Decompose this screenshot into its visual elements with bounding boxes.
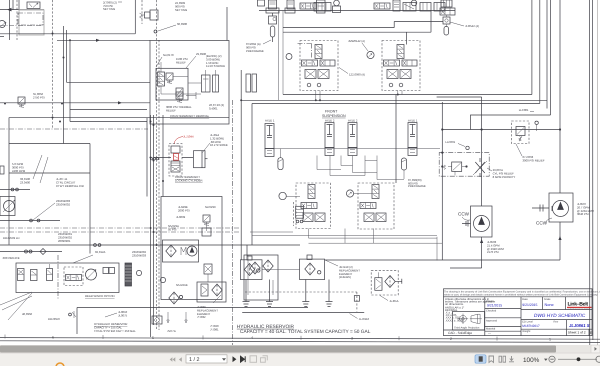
label jl0507 bbox=[577, 202, 595, 216]
cwt valve section 2 red bbox=[174, 154, 179, 161]
long vertical feed 4 bbox=[550, 0, 552, 115]
axle1 acc stub bbox=[280, 149, 282, 158]
bus junction dots bbox=[150, 121, 158, 247]
pu motor m bbox=[181, 247, 186, 255]
svg-text:ED Level: ED Level bbox=[522, 321, 533, 324]
gray highlight box bbox=[19, 10, 44, 35]
form column divider bbox=[520, 297, 522, 336]
top valve group 1b bbox=[314, 3, 331, 12]
svg-text:JIJ0542 (4): JIJ0542 (4) bbox=[465, 24, 479, 28]
priority circle bbox=[466, 146, 469, 149]
svg-text:1 / 2: 1 / 2 bbox=[189, 357, 200, 363]
svg-text:5: 5 bbox=[152, 336, 154, 340]
regulator spring bbox=[140, 13, 145, 19]
svg-text:6: 6 bbox=[52, 335, 54, 339]
svg-text:—: — bbox=[488, 331, 491, 335]
cwt locking cylinder bbox=[194, 151, 206, 168]
filter circle top bbox=[160, 277, 165, 282]
left pump circle bbox=[0, 21, 6, 28]
top-left main wire bbox=[0, 9, 44, 11]
collector drop x437 bbox=[436, 237, 438, 261]
svg-text:23,0400: 23,0400 bbox=[20, 180, 31, 184]
return valve marks bbox=[376, 272, 381, 289]
fb valve marks bbox=[202, 286, 207, 294]
top valve group 3b bbox=[434, 3, 445, 12]
strainer tees bbox=[243, 302, 333, 307]
winch valve 3 bbox=[47, 269, 53, 281]
junction dots on buses bbox=[4, 103, 63, 123]
fs2 spool left bbox=[384, 60, 400, 66]
checked row line bbox=[485, 317, 521, 319]
label 900 psi setting bbox=[175, 1, 187, 12]
label replacement element bbox=[197, 305, 218, 319]
filter box A bbox=[240, 260, 262, 280]
cwt valve hatch bbox=[171, 163, 180, 171]
front susp dashed box 1 bbox=[300, 41, 338, 91]
projection symbol crosshair bbox=[458, 314, 468, 324]
cb cylinder 1 bbox=[202, 75, 211, 92]
vertical dashed bus pair bbox=[157, 0, 160, 330]
top-left valve arrow bbox=[29, 3, 38, 8]
svg-text:SETTING: SETTING bbox=[175, 8, 187, 12]
wire mid stub bbox=[0, 25, 42, 27]
junction dots y100 bbox=[240, 94, 399, 102]
svg-text:2400 RPM: 2400 RPM bbox=[12, 169, 26, 173]
svg-text:10.2 STROKE: 10.2 STROKE bbox=[210, 143, 228, 147]
label 231064001 bbox=[58, 232, 72, 243]
wire arrowhead bbox=[7, 8, 12, 12]
filter assembly box right bbox=[244, 255, 278, 300]
feed 4 horizontal run bbox=[471, 115, 551, 130]
leader diagonal bbox=[33, 203, 55, 220]
rear gauge bbox=[346, 190, 353, 197]
winch gauge bbox=[136, 270, 141, 275]
pump2 feed vertical bbox=[559, 131, 561, 193]
cwt valve section 2 marks red bbox=[174, 156, 179, 161]
pump housing bbox=[0, 197, 15, 216]
top accumulator bank cylinders bbox=[258, 0, 265, 6]
junction dots priority bbox=[441, 152, 467, 168]
fs1 vertical valve bbox=[315, 45, 322, 59]
page box dropdown arrow bbox=[222, 358, 226, 361]
orifice diamond bbox=[40, 249, 46, 255]
svg-text:0,4001: 0,4001 bbox=[209, 106, 218, 110]
fs2 spool right marks bbox=[403, 60, 412, 66]
lower check valve bbox=[152, 316, 162, 324]
vertical feed line b bbox=[66, 30, 68, 82]
title row divider bbox=[521, 319, 592, 321]
section divider dash-dot bbox=[232, 100, 234, 345]
check comp circle bbox=[445, 19, 448, 22]
pu inner box bbox=[163, 240, 199, 262]
orange notification arc bbox=[56, 363, 64, 366]
svg-text:JLJ1044: JLJ1044 bbox=[183, 135, 194, 139]
filter B diamond bbox=[305, 263, 315, 275]
label 5.0 gpm bbox=[12, 162, 26, 173]
svg-text:None: None bbox=[545, 303, 554, 307]
leader 122 bbox=[339, 68, 348, 74]
top valve group 2b bbox=[403, 3, 416, 12]
feeder dot bbox=[162, 180, 164, 182]
pump1 feed vertical bbox=[481, 97, 483, 206]
window right edge bbox=[596, 0, 599, 345]
bus junction dots bbox=[441, 128, 561, 130]
priority dash-dot box bbox=[439, 153, 489, 177]
cluster drop wire bbox=[446, 15, 448, 27]
pressure bus y129 bbox=[442, 129, 560, 131]
wire y121 bbox=[70, 121, 147, 123]
label block bore bbox=[206, 54, 225, 68]
collector wire y243 bbox=[309, 242, 443, 244]
winch valve 1 bbox=[18, 269, 25, 281]
label ctrl circuit bbox=[56, 177, 84, 188]
fs1 bottom marks bbox=[306, 71, 328, 78]
winch valve 2 bbox=[31, 270, 38, 281]
llc001 stub bbox=[530, 112, 537, 132]
label thermal relief bbox=[166, 105, 192, 112]
leader precharge bbox=[263, 40, 271, 44]
first-page button bbox=[170, 357, 176, 362]
title block inner horizontal top bbox=[444, 296, 593, 298]
axle1 accumulator bbox=[278, 158, 283, 170]
rs1 bottom marks bbox=[304, 214, 324, 221]
wire y82 bbox=[67, 81, 151, 83]
svg-text:J*J032: J*J032 bbox=[197, 315, 206, 319]
svg-text:J*J081: J*J081 bbox=[210, 327, 219, 331]
svg-text:231064002: 231064002 bbox=[56, 202, 70, 206]
svg-text:3040 PSI: 3040 PSI bbox=[577, 212, 589, 216]
cb inner box bbox=[156, 68, 188, 100]
red leader curve bbox=[174, 137, 183, 145]
fs1 drop wires bbox=[316, 91, 320, 101]
pump2 shaft bbox=[532, 205, 552, 212]
precharge bottle bbox=[270, 26, 275, 37]
filter box B bbox=[300, 259, 325, 279]
winch dash vertical bbox=[57, 255, 59, 300]
pu pump circle bbox=[187, 246, 197, 256]
small gauge left bbox=[286, 54, 292, 60]
collector wire y237 bbox=[252, 234, 437, 236]
cb cylinder 2 bbox=[213, 75, 219, 92]
svg-text:4: 4 bbox=[251, 336, 253, 340]
fa filter big bbox=[250, 262, 260, 274]
manifold fittings bbox=[266, 8, 279, 13]
top right bottle bbox=[444, 27, 449, 36]
ED level row divider bbox=[521, 328, 592, 330]
fb filter bbox=[212, 284, 222, 296]
download icon bbox=[509, 356, 514, 362]
ED level cell divider bbox=[566, 320, 568, 330]
svg-text:231064003: 231064003 bbox=[132, 253, 146, 257]
svg-text:M187N2017: M187N2017 bbox=[522, 324, 540, 328]
leader n4 bbox=[156, 57, 162, 67]
label jl044 bore bbox=[210, 133, 228, 147]
mid fittings y245 bbox=[94, 244, 97, 247]
fs1 check circles bbox=[307, 83, 311, 87]
filter A diamond bbox=[244, 264, 254, 276]
svg-text:2750 PSI: 2750 PSI bbox=[33, 95, 45, 99]
axle accumulator bbox=[401, 158, 406, 170]
svg-text:JL0699: JL0699 bbox=[176, 215, 186, 219]
svg-text:JL0075: JL0075 bbox=[118, 313, 128, 317]
left vertical x442 bbox=[441, 102, 443, 260]
pump1 outlet bbox=[481, 237, 483, 268]
orifice circle bbox=[154, 30, 157, 33]
manifold mesh wires bbox=[317, 156, 404, 180]
svg-text:JLJ0861 S: JLJ0861 S bbox=[569, 323, 590, 328]
svg-text:Sheet 1 of 2: Sheet 1 of 2 bbox=[568, 331, 586, 335]
leader gauge bbox=[362, 43, 368, 51]
cb relief lower marks bbox=[177, 89, 182, 99]
pu drain valve bbox=[204, 264, 212, 274]
filter B top square bbox=[307, 255, 312, 260]
leader 29007a bbox=[487, 168, 492, 171]
top-left valve bbox=[27, 2, 40, 9]
rs2 bottom cluster bbox=[364, 213, 374, 222]
mid component dashed edge bbox=[293, 202, 295, 226]
svg-text:COUNTERWEIGHT REMOVAL: COUNTERWEIGHT REMOVAL bbox=[170, 114, 210, 118]
tall comp stripes bbox=[394, 2, 399, 7]
top right valve marks bbox=[441, 8, 450, 15]
svg-text:122,0990 (4): 122,0990 (4) bbox=[349, 73, 365, 77]
svg-text:CAD - SolidEdge: CAD - SolidEdge bbox=[448, 331, 472, 335]
svg-text:Scale: Scale bbox=[544, 298, 551, 301]
axle cylinder 3 bbox=[408, 123, 417, 156]
pump2 box bbox=[549, 193, 573, 222]
svg-text:Rev: Rev bbox=[554, 321, 559, 324]
rear gauge wire bbox=[354, 193, 372, 195]
orifice wire y251 bbox=[0, 251, 62, 253]
svg-text:AXLE 2: AXLE 2 bbox=[348, 119, 358, 123]
counterbalance relief box bbox=[150, 41, 229, 125]
page-layout icon 1 (disabled) bbox=[250, 356, 257, 363]
pump2 outlet corner bbox=[325, 259, 560, 261]
left edge comp bbox=[0, 166, 4, 174]
leader jrj419 bbox=[325, 260, 338, 266]
wire y32 bbox=[283, 32, 431, 44]
pu relief spring bbox=[206, 225, 208, 231]
cb relief lower bbox=[176, 88, 183, 96]
wire y245 with orifices bbox=[0, 245, 300, 256]
cluster riser x431 bbox=[430, 11, 432, 33]
reservoir label text small bbox=[94, 322, 136, 333]
vertical feed line a bbox=[63, 26, 65, 144]
wire top bus bbox=[0, 33, 135, 35]
dash-dot leader box bbox=[73, 255, 93, 263]
top right cylinders bbox=[441, 0, 452, 7]
svg-text:CTWT REMOVAL CIR: CTWT REMOVAL CIR bbox=[56, 184, 84, 188]
leader to orifice bbox=[158, 25, 176, 31]
group2 pilot circle bbox=[411, 0, 417, 6]
return box right bbox=[371, 271, 398, 295]
axle cylinder 1 bbox=[325, 123, 334, 156]
group3 marks bbox=[423, 3, 427, 12]
fitting stub bbox=[72, 311, 76, 318]
svg-text:100%: 100% bbox=[523, 357, 540, 364]
svg-text:02,012A: 02,012A bbox=[95, 250, 106, 254]
svg-text:1: 1 bbox=[549, 337, 551, 341]
label jrj419 bbox=[339, 265, 360, 279]
svg-text:LLC001: LLC001 bbox=[445, 140, 455, 144]
scrollbar right arrow glyph bbox=[595, 347, 597, 351]
cb valve vertical bbox=[158, 72, 165, 86]
winch sub box dashed bbox=[64, 267, 83, 286]
svg-text:PRECHARGE: PRECHARGE bbox=[246, 49, 264, 53]
pump1 feed corner bbox=[437, 96, 482, 98]
svg-text:AXLE 1: AXLE 1 bbox=[408, 119, 418, 123]
svg-text:Approved: Approved bbox=[486, 319, 498, 322]
vertical dashed bus bbox=[52, 0, 54, 129]
wire y27 bbox=[283, 22, 443, 28]
pump2 outlet arrow bbox=[558, 236, 561, 240]
return filter diamond bbox=[385, 276, 395, 288]
accumulator bank stripes bbox=[270, 2, 325, 6]
sheet bottom border line 2 bbox=[0, 341, 600, 343]
mid wire y218 bbox=[250, 231, 293, 233]
leader 07c063 bbox=[516, 144, 522, 156]
prev-page button bbox=[179, 357, 182, 362]
svg-text:N2/2299: N2/2299 bbox=[205, 205, 216, 209]
priority relief valve bbox=[452, 162, 462, 171]
priority spring left bbox=[443, 165, 445, 169]
leader diagonals bottom-left bbox=[0, 292, 32, 320]
reservoir drop pipes bbox=[246, 280, 329, 302]
pu pump dot bbox=[190, 247, 195, 253]
feed 1 horizontal run bbox=[283, 95, 532, 184]
pu relief body bbox=[202, 228, 211, 236]
leader jlj0116 bbox=[350, 314, 358, 319]
scrollbar right arrow box bbox=[591, 345, 600, 353]
relief valve 55,0056 bbox=[18, 97, 25, 107]
feeder x163 bbox=[162, 115, 164, 197]
reservoir label box left bbox=[77, 308, 308, 335]
label 900 psi precharge bbox=[246, 42, 264, 53]
top valve group 3 bbox=[420, 3, 431, 12]
bookmark icon bbox=[489, 356, 494, 363]
panel corner vertical bbox=[134, 0, 136, 34]
toolbar background bbox=[0, 353, 600, 366]
feed 3 horizontal run bbox=[241, 99, 547, 101]
pressure regulator bbox=[145, 12, 151, 18]
facing-pages icon bbox=[499, 356, 506, 362]
wire to cylinder bbox=[154, 157, 194, 159]
mid striped valve stripes bbox=[296, 209, 304, 215]
zoom-out minus bbox=[550, 358, 553, 360]
svg-text:CCW: CCW bbox=[458, 212, 470, 217]
top manifold bus bbox=[259, 10, 455, 12]
filter block box bbox=[197, 282, 226, 302]
top-left verticals bbox=[10, 0, 20, 40]
svg-text:CAPACITY = 40 GAL. TOTAL SY: CAPACITY = 40 GAL. TOTAL SYSTEM CAPACITY… bbox=[240, 329, 371, 335]
label 2750 psi bbox=[33, 92, 45, 99]
disconnect pair lower bbox=[30, 219, 33, 222]
wire y103 bbox=[0, 102, 150, 104]
cylinder bus wire bbox=[274, 148, 440, 150]
page number box bbox=[186, 355, 227, 363]
label 231064002b bbox=[132, 250, 146, 257]
leader jij0542 bbox=[450, 22, 464, 26]
svg-text:AXLE 1: AXLE 1 bbox=[265, 119, 275, 123]
page-layout icon 2 (disabled) bbox=[261, 356, 268, 363]
svg-text:Date: Date bbox=[522, 298, 528, 301]
leader rep element bbox=[213, 295, 221, 303]
projection symbol circle bbox=[460, 315, 467, 322]
vertical riser x147 bbox=[146, 118, 148, 197]
precharge valve block bbox=[269, 16, 277, 24]
zoom-in button (clipped) bbox=[596, 356, 600, 362]
top-left dashed vertical bbox=[16, 0, 18, 40]
wire y117 bbox=[9, 117, 229, 119]
small fitting bbox=[69, 313, 72, 316]
front susp dashed box 2 bbox=[382, 41, 420, 91]
cb cyl 1 piston bbox=[203, 75, 209, 92]
svg-text:JLJ0116: JLJ0116 bbox=[359, 317, 370, 321]
pu bottom fitting bbox=[207, 274, 209, 282]
pu relief valve bbox=[203, 215, 210, 225]
riser lines to front susp bbox=[279, 11, 284, 101]
rear susp drop wires bbox=[309, 229, 374, 244]
pump1 box bbox=[471, 206, 493, 237]
mid fitting b bbox=[98, 244, 101, 247]
orifice fittings bbox=[25, 250, 28, 253]
flow throttle X bbox=[475, 158, 485, 177]
svg-text:PRECHARGE: PRECHARGE bbox=[408, 184, 426, 188]
power unit box bbox=[161, 197, 222, 300]
filter A circle bbox=[257, 269, 260, 272]
group1b marks bbox=[318, 3, 326, 12]
left edge tick bbox=[0, 36, 4, 38]
axle col left line bbox=[240, 70, 242, 260]
drawn row line bbox=[485, 308, 521, 310]
junction dot feed bbox=[63, 39, 72, 58]
bottom scrollbar track bbox=[0, 345, 600, 353]
lower filter diamond bbox=[169, 292, 179, 304]
svg-text:29,0990: 29,0990 bbox=[196, 52, 207, 56]
svg-text:Material: Material bbox=[486, 328, 496, 331]
svg-text:JMW0142 (4): JMW0142 (4) bbox=[348, 39, 365, 43]
return box valve bbox=[375, 278, 382, 291]
dash-dot corner piece bbox=[298, 44, 312, 58]
pump2 triangle bbox=[557, 202, 564, 210]
fs2 drop wires bbox=[398, 91, 402, 95]
collector wire y240 bbox=[309, 237, 438, 239]
relief valve spring bbox=[519, 137, 522, 142]
svg-text:DRJ3550: DRJ3550 bbox=[48, 317, 60, 321]
label 750 psi setting bbox=[103, 0, 117, 11]
zoom dropdown arrow bbox=[544, 359, 548, 361]
pump2 outlet bbox=[559, 222, 561, 260]
wire x227 stub bbox=[226, 7, 228, 41]
single-page-view button (active blue) bbox=[475, 355, 486, 363]
wire with arrow bbox=[57, 39, 150, 41]
label 07-C063 bbox=[523, 155, 545, 162]
svg-text:50 PSI: 50 PSI bbox=[168, 227, 177, 231]
group1 pilot circle bbox=[334, 0, 340, 6]
relief dashed box bbox=[512, 121, 530, 144]
dash-dot sub box bbox=[18, 13, 43, 25]
group2b marks bbox=[404, 3, 414, 12]
svg-text:JVC7A: JVC7A bbox=[167, 329, 176, 333]
regulator dashed stem bbox=[141, 0, 143, 24]
llc001 circle bbox=[535, 121, 538, 124]
label 33,0190 bbox=[20, 177, 31, 184]
rear susp dashed box 1 bbox=[296, 183, 330, 229]
svg-text:Link–Belt: Link–Belt bbox=[568, 301, 589, 307]
axle cylinder 2 bbox=[348, 123, 357, 156]
mid striped valve bbox=[296, 206, 304, 218]
svg-text:SETTING: SETTING bbox=[103, 7, 115, 11]
projection symbol cone bbox=[471, 314, 480, 323]
